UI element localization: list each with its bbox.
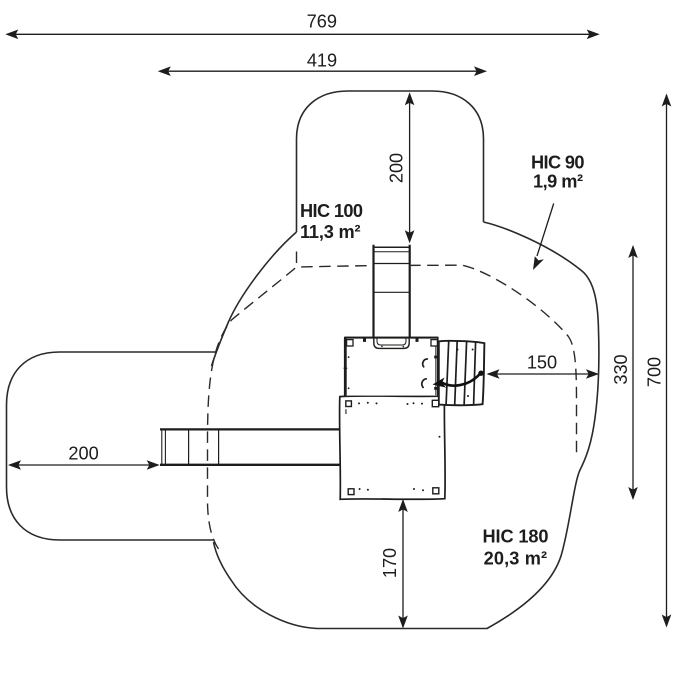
outer safety-zone solid outline (HIC 100 capsule, HIC 90 bump, HIC 180 body) <box>7 91 599 629</box>
svg-text:170: 170 <box>380 548 400 578</box>
svg-text:419: 419 <box>307 50 337 70</box>
svg-text:200: 200 <box>68 443 98 463</box>
svg-text:200: 200 <box>387 153 407 183</box>
svg-text:11,3 m²: 11,3 m² <box>300 222 361 242</box>
lower platform <box>340 396 446 499</box>
dimension 330 <box>628 245 638 500</box>
svg-text:150: 150 <box>527 352 557 372</box>
dimension 170 <box>398 499 408 629</box>
svg-text:769: 769 <box>307 11 337 31</box>
svg-text:1,9 m²: 1,9 m² <box>533 172 583 192</box>
svg-text:HIC 90: HIC 90 <box>531 153 585 173</box>
lower platform corner squares and dots <box>346 400 441 494</box>
minimum-space dashed outline <box>208 246 577 549</box>
HIC 90 pointer arrow <box>533 204 554 271</box>
dimension 700 <box>662 94 672 628</box>
svg-text:HIC 180: HIC 180 <box>483 527 549 547</box>
dimension 419 <box>158 66 487 76</box>
upper platform <box>344 338 438 396</box>
svg-text:HIC 100: HIC 100 <box>300 201 363 221</box>
dimension 200 vertical at ladder <box>405 92 415 243</box>
rope on barrel with end dot <box>433 371 484 388</box>
dimension 200 horizontal at left <box>8 460 160 470</box>
ladder handle U into platform <box>374 338 409 349</box>
svg-text:700: 700 <box>644 357 664 387</box>
dimension 150 <box>487 369 600 379</box>
slide <box>160 429 340 464</box>
barrel climber <box>439 341 485 405</box>
svg-text:330: 330 <box>611 354 631 384</box>
left capsule (slide zone) <box>7 352 216 540</box>
HIC 90 bump and right side down to bottom <box>214 222 599 629</box>
dimension 769 <box>5 30 599 40</box>
HIC 100 capsule top <box>297 91 484 232</box>
ladder <box>372 244 410 339</box>
svg-text:20,3 m²: 20,3 m² <box>484 549 547 569</box>
main body top-left corner arc <box>212 232 297 366</box>
